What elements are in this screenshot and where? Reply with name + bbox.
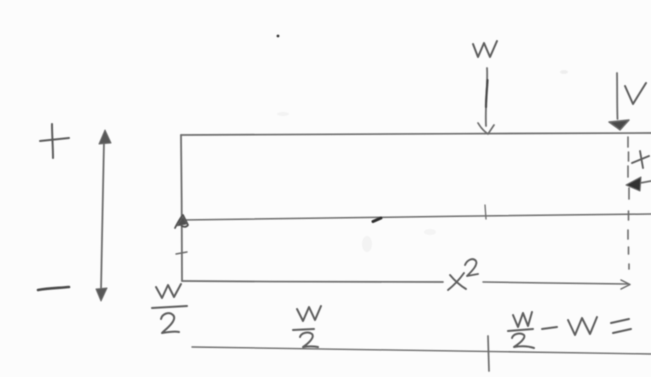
bottom line left segment — [182, 281, 443, 282]
reaction arrowhead W/2 (up arrow on left edge) — [175, 215, 188, 228]
fraction bar — [293, 329, 314, 330]
beam top line — [181, 133, 651, 135]
tick on left edge — [176, 252, 187, 254]
load arrow W (down) — [486, 68, 487, 126]
bottom long line — [192, 347, 651, 354]
beam left edge — [181, 135, 182, 281]
load label W (top) — [473, 41, 497, 57]
W/2 label (middle of bottom line): W — [297, 306, 321, 321]
label V — [625, 83, 646, 104]
2 — [300, 333, 318, 347]
left-pointing arrow (right edge) — [636, 181, 651, 184]
minus — [542, 327, 557, 329]
W/2 label (below left support): W — [156, 284, 181, 298]
minus sign (left) — [38, 287, 69, 290]
tick crossing bottom line — [488, 336, 489, 371]
fraction bar — [508, 329, 533, 331]
small tick above middle line at x=485 — [485, 205, 486, 219]
W — [568, 317, 597, 335]
x-squared dimension arrow (right segment) — [483, 282, 628, 284]
fraction bar — [152, 306, 187, 308]
faint smudges — [277, 70, 568, 252]
small blob / arrow mark on middle line — [373, 218, 381, 222]
shear arrow V (down, right) — [616, 73, 619, 119]
dashed section line — [628, 137, 629, 269]
double-headed vertical arrow (left axis) — [96, 130, 111, 301]
plus sign (sign convention, left) — [40, 124, 69, 158]
middle horizontal line (beam bottom / datum) — [182, 214, 651, 220]
x squared label: x — [450, 275, 466, 289]
tilted plus (right edge) — [632, 151, 649, 168]
equals — [611, 319, 629, 323]
equation W/2 - W = : numerator W — [513, 312, 532, 327]
stray dot — [277, 35, 280, 38]
superscript 2 — [465, 259, 478, 276]
2 — [512, 334, 534, 348]
2 — [161, 313, 179, 333]
